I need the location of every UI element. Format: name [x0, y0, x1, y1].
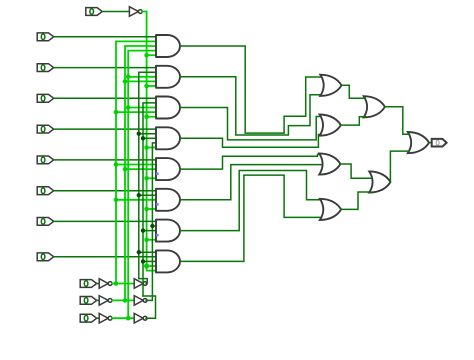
junction EN' g7 in5 [144, 238, 149, 243]
output pin Q [432, 139, 447, 147]
input pin D4 [37, 156, 54, 164]
NOT gate U_notEN [129, 7, 138, 17]
AND gate U1 [156, 35, 180, 57]
wire EN' stub g8 in4 [147, 265, 156, 267]
wire OR6 out to OR7.b [390, 151, 409, 182]
NOT gate U_n0b [134, 279, 143, 289]
OR gate OR4 [320, 199, 341, 220]
junction V1 row1 [114, 281, 119, 286]
wire V4 S0 vertical [139, 72, 156, 283]
wire V1 S0' vertical [116, 41, 156, 283]
junction V1 g6 [114, 198, 119, 203]
junction EN' g4 in5 [144, 145, 149, 150]
wire V1 stub g3 [116, 111, 156, 113]
wire S1 to NOT [97, 299, 100, 301]
wire S0' to second NOT [112, 283, 134, 285]
junction V3 g3 [126, 105, 131, 110]
wire EN' vertical V6 [142, 12, 156, 271]
wire D0 to AND1 [54, 36, 156, 38]
wire AND5 out to OR3.a [180, 154, 322, 169]
wire AND2 out to OR1.b [180, 77, 322, 135]
wire D4 to AND5 [54, 159, 156, 161]
junction V4 g8 [137, 250, 141, 254]
wire AND6 out to OR3.b [180, 165, 322, 200]
wire OR4 out to OR6.b [341, 192, 371, 209]
wire D2 to AND3 [54, 97, 156, 99]
wire S2' to second NOT [112, 317, 134, 319]
junction V2 row2 [123, 298, 128, 303]
wire EN' stub g6 in5 [147, 208, 156, 210]
input pin D0 [37, 33, 54, 41]
AND gate U5 [156, 158, 180, 180]
wire OR2 out to OR5.b [341, 117, 366, 125]
wire V4 stub g4 [139, 133, 156, 135]
wire D7 to AND8 [54, 256, 156, 258]
wire S2 to NOT [97, 317, 100, 319]
input pin D7 [37, 253, 54, 261]
junction V3 g2 [126, 75, 131, 80]
junction EN' g5 in5 [144, 176, 149, 181]
unused input marker g6 [156, 203, 159, 206]
junction EN' g1 in5 [144, 53, 149, 58]
input pin EN [86, 8, 103, 16]
wire D5 to AND6 [54, 190, 156, 192]
AND gate U6 [156, 189, 180, 211]
AND gate U8 [156, 250, 180, 272]
AND gate U7 [156, 220, 180, 242]
wire V3 stub g2 [128, 76, 156, 78]
junction V2 g2 [123, 79, 128, 84]
junction V1 g5 [114, 162, 119, 167]
wire V5 S1 vertical [143, 103, 156, 296]
junction V4 g4 [137, 132, 141, 136]
OR gate OR1 [320, 75, 341, 96]
OR gate OR3 [319, 153, 340, 174]
junction V3 row3 [126, 316, 131, 321]
wire AND3 out to OR2.a [180, 108, 321, 140]
junction EN' g6 in5 [144, 207, 149, 212]
junction V1 g3 [114, 110, 119, 115]
OR gate OR2 [320, 115, 341, 136]
wire V5 stub g8 [143, 260, 156, 262]
wire OR1 out to OR5.a [342, 85, 366, 98]
wire AND1 out to OR1.a [180, 46, 322, 133]
junction EN' g3 in5 [144, 114, 149, 119]
junction V4 g6 [137, 193, 141, 197]
wire AND4 out to OR2.b [180, 135, 321, 148]
junction V5 g4 [141, 136, 145, 140]
wire D1 to AND2 [54, 67, 156, 69]
wire EN to NOT [102, 11, 129, 13]
wire EN' stub g1 in5 [147, 54, 156, 56]
wire AND8 out to OR4.b [180, 175, 321, 261]
input pin D6 [37, 218, 54, 226]
wire OR7 out to output pin [429, 142, 432, 144]
junction EN' g8 in4 [144, 263, 149, 268]
wire V3 S2' vertical [128, 51, 156, 319]
wire V3 stub g3 [128, 107, 156, 109]
wire V5 stub g7 [143, 230, 156, 232]
NOT gate U_n2a [99, 313, 108, 323]
junction EN' g2 in5 [144, 84, 149, 89]
AND gate U3 [156, 97, 180, 119]
wire EN' stub g7 in5 [147, 239, 156, 241]
wire D6 to AND7 [54, 220, 156, 222]
OR gate OR6 [369, 171, 390, 192]
wire EN' stub g3 in5 [147, 116, 156, 118]
NOT gate U_n1b [134, 296, 143, 306]
wire V2 stub g5 [125, 168, 156, 170]
wire V4 stub g8 [139, 251, 156, 253]
wire EN' stub g2 in5 [147, 85, 156, 87]
input pin S1 [80, 297, 97, 305]
wire V7 stub g7 in2 [152, 225, 156, 227]
wire V1 stub g6 [116, 199, 156, 201]
unused input marker g5 [156, 172, 159, 175]
wire V1 stub g5 [116, 164, 156, 166]
unused input marker g7 [156, 234, 159, 237]
input pin D5 [37, 187, 54, 195]
wire EN' stub g4 in5 [147, 147, 156, 149]
wire OR3 out to OR6.a [340, 164, 370, 178]
NOT gate U_n1a [99, 296, 108, 306]
input pin D3 [37, 125, 54, 133]
NOT gate U_n0a [99, 279, 108, 289]
input pin S2 [80, 314, 97, 322]
NOT gate U_n2b [134, 313, 143, 323]
wire V2 S1' vertical [125, 46, 156, 300]
wire D3 to AND4 [54, 128, 156, 130]
input pin S0 [80, 280, 97, 288]
input pin D2 [37, 94, 54, 102]
junction V7 g7 [150, 224, 154, 228]
AND gate U4 [156, 127, 180, 149]
wire OR5 out to OR7.a [385, 107, 409, 134]
junction V2 g5 [123, 167, 128, 172]
wire AND7 out to OR4.a [180, 171, 321, 231]
wire V7 S2 vertical [146, 143, 156, 301]
input pin D1 [37, 64, 54, 72]
wire EN' stub g5 in5 [147, 177, 156, 179]
junction V5 g8 [141, 259, 145, 263]
wire S1' to second NOT [112, 299, 134, 301]
OR gate OR5 [364, 96, 385, 117]
wire V5 stub g4 [143, 137, 156, 139]
AND gate U2 [156, 66, 180, 88]
wire V5 bottom jog to row3 [143, 296, 156, 318]
wire V2 stub g2 [125, 80, 156, 82]
OR gate OR7 [408, 132, 429, 153]
junction V5 g7 [141, 228, 145, 232]
wire V4 stub g6 [139, 194, 156, 196]
wire S0 to NOT [97, 283, 100, 285]
